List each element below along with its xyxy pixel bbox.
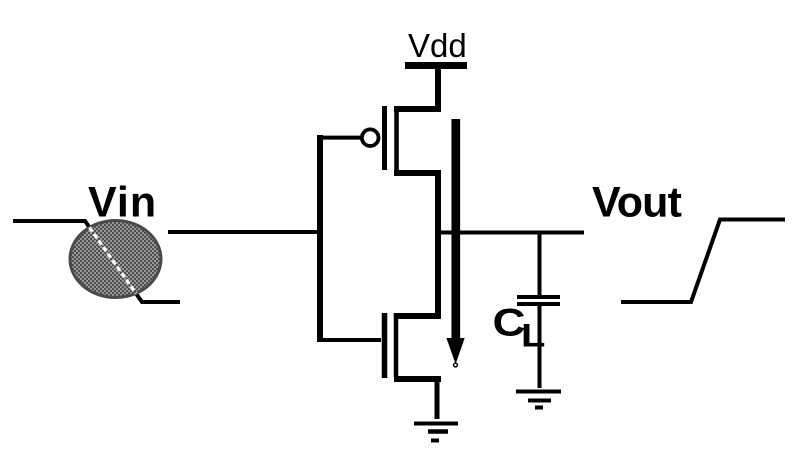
ground NMOS: [414, 424, 458, 441]
transistor M1 PMOS source stub: [394, 106, 441, 112]
wire PMOS source to Vdd: [435, 65, 441, 112]
transistor M2 NMOS channel: [394, 313, 399, 377]
transistor M1 PMOS gate bar: [382, 106, 387, 170]
svg-text:Vin: Vin: [88, 179, 157, 227]
wire NMOS source to ground: [435, 376, 440, 419]
svg-text:L: L: [521, 317, 545, 353]
wire output: [436, 231, 584, 235]
label CL: [493, 301, 546, 354]
capacitor CL bottom plate: [517, 302, 560, 306]
input waveform falling edge: [13, 221, 180, 302]
PMOS gate bubble: [362, 129, 379, 146]
wire NMOS gate: [317, 338, 381, 342]
svg-text:Vout: Vout: [592, 178, 682, 226]
Vdd supply bar: [405, 62, 467, 69]
ground capacitor: [516, 392, 561, 408]
input transition blob: [70, 221, 161, 298]
transistor M2 NMOS gate bar: [382, 313, 388, 378]
wire output node vertical: [435, 170, 441, 319]
svg-text:Vdd: Vdd: [408, 27, 467, 64]
transistor M1 PMOS drain stub: [394, 170, 441, 176]
wire gate bus vertical: [317, 135, 323, 341]
wire capacitor top: [538, 231, 542, 295]
wire PMOS gate: [317, 136, 362, 140]
transistor M1 PMOS channel: [394, 106, 399, 172]
dashed transition line: [90, 228, 137, 294]
wire input node: [168, 230, 320, 234]
capacitor CL top plate: [517, 295, 560, 299]
output waveform rising edge: [621, 220, 785, 303]
transistor M2 NMOS source stub: [394, 376, 441, 382]
wire capacitor bottom: [538, 304, 542, 388]
current arrow: [446, 119, 464, 367]
transistor M2 NMOS drain stub: [394, 313, 441, 319]
